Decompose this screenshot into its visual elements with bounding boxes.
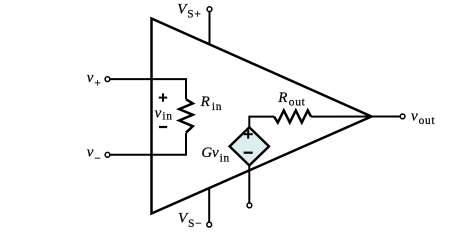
- svg-text:v: v: [411, 108, 418, 124]
- svg-text:out: out: [289, 97, 306, 109]
- svg-text:in: in: [162, 111, 172, 123]
- svg-text:S+: S+: [187, 9, 201, 21]
- svg-text:in: in: [220, 152, 230, 164]
- svg-text:v: v: [87, 145, 94, 161]
- svg-text:in: in: [212, 101, 222, 113]
- svg-text:G: G: [201, 145, 212, 161]
- svg-text:+: +: [94, 77, 101, 89]
- svg-text:S−: S−: [188, 218, 202, 230]
- svg-text:v: v: [155, 105, 162, 121]
- svg-text:v: v: [212, 145, 219, 161]
- svg-text:R: R: [277, 90, 287, 106]
- svg-text:R: R: [200, 94, 210, 110]
- svg-text:−: −: [94, 153, 101, 165]
- svg-text:out: out: [419, 115, 436, 127]
- svg-text:v: v: [87, 70, 94, 86]
